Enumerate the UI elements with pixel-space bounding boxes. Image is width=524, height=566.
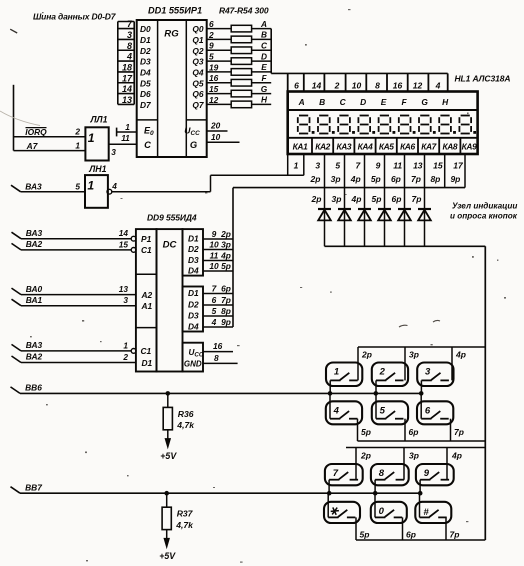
svg-text:и опроса кнопок: и опроса кнопок <box>450 212 518 221</box>
svg-text:DD9 555ИД4: DD9 555ИД4 <box>147 213 197 223</box>
svg-text:10: 10 <box>352 80 362 90</box>
svg-text:Q7: Q7 <box>192 100 204 110</box>
svg-text:ВА2: ВА2 <box>26 239 43 249</box>
svg-text:13: 13 <box>119 284 129 294</box>
svg-text:КА3: КА3 <box>336 142 351 152</box>
svg-text:КА6: КА6 <box>400 142 415 152</box>
svg-text:A: A <box>260 19 267 29</box>
svg-text:D1: D1 <box>140 35 151 45</box>
svg-text:9: 9 <box>424 468 430 479</box>
svg-text:16: 16 <box>213 341 223 351</box>
svg-text:D1: D1 <box>188 288 199 298</box>
svg-text:6р: 6р <box>392 194 402 204</box>
svg-text:H: H <box>442 97 449 107</box>
svg-text:3: 3 <box>425 367 431 378</box>
svg-text:10: 10 <box>209 239 219 249</box>
svg-text:8: 8 <box>375 80 380 90</box>
svg-text:17: 17 <box>122 73 133 83</box>
svg-text:3: 3 <box>123 295 128 305</box>
svg-text:2: 2 <box>74 127 80 137</box>
svg-text:1: 1 <box>334 367 339 378</box>
svg-text:2: 2 <box>334 80 340 90</box>
svg-text:2: 2 <box>208 30 214 40</box>
svg-text:0: 0 <box>379 506 385 517</box>
svg-text:5: 5 <box>335 160 340 170</box>
svg-text:2р: 2р <box>220 229 231 239</box>
svg-text:5: 5 <box>75 181 80 191</box>
svg-text:9: 9 <box>212 229 217 239</box>
svg-text:20: 20 <box>210 121 221 131</box>
svg-text:6р: 6р <box>391 174 401 184</box>
svg-text:H: H <box>261 95 268 105</box>
svg-text:1: 1 <box>125 122 130 132</box>
svg-text:3р: 3р <box>332 194 342 204</box>
svg-text:14: 14 <box>122 84 132 94</box>
svg-text:E0: E0 <box>144 126 154 138</box>
svg-text:9р: 9р <box>450 174 460 184</box>
svg-text:#: # <box>423 507 429 518</box>
svg-text:F: F <box>261 73 267 83</box>
svg-text:UCC: UCC <box>184 125 200 137</box>
svg-text:R47-R54 300: R47-R54 300 <box>219 6 269 16</box>
svg-text:2р: 2р <box>311 194 322 204</box>
svg-text:ВВ7: ВВ7 <box>25 482 42 492</box>
svg-text:КА9: КА9 <box>462 142 477 152</box>
svg-text:D4: D4 <box>188 322 199 332</box>
svg-text:A2: A2 <box>141 290 153 300</box>
svg-text:6: 6 <box>294 80 299 90</box>
svg-text:R36: R36 <box>178 409 194 419</box>
svg-text:7р: 7р <box>221 295 231 305</box>
svg-text:14: 14 <box>312 80 322 90</box>
svg-text:Q0: Q0 <box>192 24 204 34</box>
svg-text:1: 1 <box>75 140 80 150</box>
svg-text:D0: D0 <box>140 24 151 34</box>
svg-text:7р: 7р <box>411 174 421 184</box>
svg-text:11: 11 <box>210 250 219 260</box>
svg-text:4,7k: 4,7k <box>176 420 195 430</box>
svg-text:7р: 7р <box>454 427 464 437</box>
svg-text:C: C <box>340 97 347 107</box>
svg-text:HL1 АЛС318А: HL1 АЛС318А <box>455 74 511 84</box>
svg-text:4: 4 <box>211 317 217 327</box>
svg-text:10: 10 <box>211 132 221 142</box>
svg-text:R37: R37 <box>177 509 194 519</box>
svg-text:15: 15 <box>119 239 129 249</box>
svg-text:4: 4 <box>126 52 132 62</box>
svg-text:GND: GND <box>184 359 202 368</box>
svg-text:4р: 4р <box>350 174 361 184</box>
svg-text:11: 11 <box>393 160 402 170</box>
svg-text:13: 13 <box>122 95 132 105</box>
svg-text:C: C <box>261 40 268 50</box>
svg-text:2р: 2р <box>310 174 321 184</box>
svg-text:D: D <box>360 97 366 107</box>
svg-text:Q4: Q4 <box>192 68 204 78</box>
svg-text:D4: D4 <box>188 266 199 276</box>
svg-text:IORQ: IORQ <box>25 127 47 137</box>
svg-text:8р: 8р <box>221 306 231 316</box>
svg-text:C: C <box>144 139 151 150</box>
svg-text:ВА1: ВА1 <box>26 295 43 305</box>
svg-text:4р: 4р <box>220 250 231 260</box>
svg-text:D2: D2 <box>188 300 199 310</box>
svg-text:8: 8 <box>379 468 385 479</box>
svg-text:DD1 555ИР1: DD1 555ИР1 <box>148 6 202 16</box>
svg-text:12: 12 <box>209 95 219 105</box>
svg-text:6: 6 <box>212 295 217 305</box>
svg-text:5р: 5р <box>360 530 370 540</box>
svg-text:3р: 3р <box>221 239 231 249</box>
svg-text:Q3: Q3 <box>192 57 204 67</box>
svg-text:15: 15 <box>433 160 443 170</box>
svg-text:5р: 5р <box>221 261 231 271</box>
svg-text:6р: 6р <box>406 530 416 540</box>
svg-text:4: 4 <box>111 181 117 191</box>
svg-text:Q6: Q6 <box>192 89 204 99</box>
svg-text:ВА0: ВА0 <box>26 284 43 294</box>
svg-text:P1: P1 <box>141 234 152 244</box>
svg-text:1: 1 <box>88 131 95 145</box>
svg-text:19: 19 <box>209 62 219 72</box>
svg-text:2р: 2р <box>361 350 372 360</box>
svg-text:7р: 7р <box>412 194 422 204</box>
svg-text:9: 9 <box>376 160 381 170</box>
svg-text:Q1: Q1 <box>192 35 204 45</box>
svg-text:4р: 4р <box>351 194 362 204</box>
svg-text:G: G <box>190 139 197 150</box>
svg-text:10: 10 <box>209 261 219 271</box>
svg-text:D3: D3 <box>188 255 199 265</box>
svg-text:5: 5 <box>212 306 217 316</box>
svg-text:ВА3: ВА3 <box>26 228 43 238</box>
svg-text:D2: D2 <box>188 244 199 254</box>
svg-text:D1: D1 <box>188 234 199 244</box>
svg-text:8: 8 <box>127 41 132 51</box>
svg-text:6: 6 <box>425 406 431 417</box>
svg-text:КА5: КА5 <box>379 142 394 152</box>
svg-text:КА8: КА8 <box>442 142 457 152</box>
svg-text:2: 2 <box>379 367 386 378</box>
svg-text:D3: D3 <box>140 57 151 67</box>
svg-text:ЛЛ1: ЛЛ1 <box>90 115 108 125</box>
svg-text:11: 11 <box>121 133 130 143</box>
svg-text:D1: D1 <box>142 358 153 368</box>
svg-text:Q2: Q2 <box>192 46 204 56</box>
svg-text:7: 7 <box>333 468 339 479</box>
svg-text:E: E <box>381 97 387 107</box>
svg-text:5: 5 <box>209 51 214 61</box>
svg-text:3р: 3р <box>409 350 419 360</box>
svg-text:F: F <box>402 97 408 107</box>
svg-text:RG: RG <box>164 28 179 39</box>
svg-text:13: 13 <box>413 160 423 170</box>
svg-text:1: 1 <box>294 160 299 170</box>
svg-text:4: 4 <box>333 406 340 417</box>
svg-text:C1: C1 <box>141 346 152 356</box>
svg-text:+5V: +5V <box>160 451 177 461</box>
svg-text:5р: 5р <box>372 194 382 204</box>
svg-text:6: 6 <box>209 19 214 29</box>
svg-text:D7: D7 <box>140 100 151 110</box>
svg-text:1: 1 <box>123 340 128 350</box>
svg-text:ВА3: ВА3 <box>26 340 43 350</box>
svg-text:3р: 3р <box>409 451 419 461</box>
svg-text:Шина данных D0-D7: Шина данных D0-D7 <box>33 12 117 22</box>
svg-text:3р: 3р <box>331 174 341 184</box>
svg-text:A: A <box>298 97 305 107</box>
svg-text:ВА2: ВА2 <box>26 352 43 362</box>
svg-text:17: 17 <box>453 160 464 170</box>
svg-text:5: 5 <box>380 406 386 417</box>
svg-text:5р: 5р <box>371 174 381 184</box>
svg-text:3: 3 <box>127 30 132 40</box>
svg-text:КА4: КА4 <box>358 142 373 152</box>
svg-text:7: 7 <box>356 160 362 170</box>
svg-text:DC: DC <box>163 240 178 251</box>
svg-text:3: 3 <box>111 147 116 157</box>
svg-text:1: 1 <box>87 179 94 193</box>
svg-text:A1: A1 <box>141 301 153 311</box>
svg-text:ЛН1: ЛН1 <box>88 164 106 174</box>
svg-text:4р: 4р <box>455 350 466 360</box>
svg-text:4р: 4р <box>451 451 462 461</box>
svg-text:КА1: КА1 <box>293 142 308 152</box>
svg-text:Узел индикации: Узел индикации <box>452 201 517 210</box>
svg-text:B: B <box>261 30 267 40</box>
svg-text:D3: D3 <box>188 311 199 321</box>
svg-text:D4: D4 <box>140 68 151 78</box>
svg-text:7: 7 <box>212 283 217 293</box>
svg-text:15: 15 <box>209 84 219 94</box>
svg-text:9р: 9р <box>221 317 231 327</box>
svg-text:G: G <box>261 84 268 94</box>
svg-text:4: 4 <box>435 80 441 90</box>
svg-text:8: 8 <box>214 353 219 363</box>
svg-text:+5V: +5V <box>159 551 176 561</box>
svg-text:6р: 6р <box>409 427 419 437</box>
svg-text:14: 14 <box>119 228 129 238</box>
svg-text:5р: 5р <box>361 427 371 437</box>
svg-text:КА7: КА7 <box>421 142 436 152</box>
svg-text:7: 7 <box>127 19 133 29</box>
svg-text:A7: A7 <box>26 141 38 151</box>
svg-text:8р: 8р <box>430 174 440 184</box>
svg-text:12: 12 <box>413 80 423 90</box>
svg-text:C1: C1 <box>141 245 152 255</box>
svg-text:2р: 2р <box>360 451 371 461</box>
svg-text:КА2: КА2 <box>315 142 330 152</box>
svg-text:D5: D5 <box>140 78 151 88</box>
svg-text:E: E <box>261 62 267 72</box>
svg-text:ВВ6: ВВ6 <box>25 383 42 393</box>
svg-text:18: 18 <box>122 62 132 72</box>
svg-text:ВА3: ВА3 <box>25 181 42 191</box>
svg-text:UCC: UCC <box>189 348 204 359</box>
svg-text:6р: 6р <box>221 283 231 293</box>
svg-text:D: D <box>261 51 267 61</box>
svg-text:Q5: Q5 <box>192 78 204 88</box>
svg-text:G: G <box>421 97 428 107</box>
svg-text:3: 3 <box>315 160 320 170</box>
svg-text:7р: 7р <box>450 530 460 540</box>
svg-text:16: 16 <box>393 80 403 90</box>
svg-text:D6: D6 <box>140 89 151 99</box>
svg-text:9: 9 <box>209 41 214 51</box>
svg-text:D2: D2 <box>140 46 151 56</box>
svg-text:4,7k: 4,7k <box>175 520 194 530</box>
svg-text:B: B <box>319 97 325 107</box>
svg-text:2: 2 <box>122 352 128 362</box>
svg-text:16: 16 <box>209 73 219 83</box>
